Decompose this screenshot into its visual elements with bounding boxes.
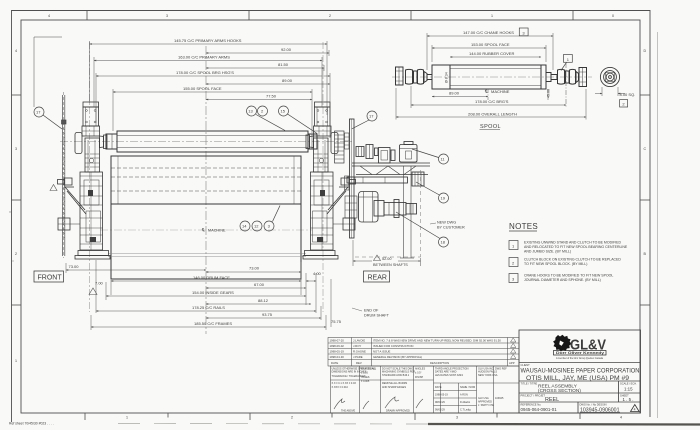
svg-text:8.00 SQ.: 8.00 SQ. xyxy=(620,92,636,97)
svg-text:103945-0906001: 103945-0906001 xyxy=(580,407,620,413)
spool end view xyxy=(600,67,619,86)
note box 2 xyxy=(509,258,518,267)
left primary arm assembly xyxy=(58,102,111,259)
end of drum shaft note xyxy=(352,308,390,318)
svg-text:ANGLES: ANGLES xyxy=(415,368,425,371)
svg-text:AND JUMBO SIZE. (BY MILL): AND JUMBO SIZE. (BY MILL) xyxy=(524,250,571,254)
svg-text:0945-064-0901-01: 0945-064-0901-01 xyxy=(521,407,558,412)
mid shaft xyxy=(347,177,408,183)
drum front view xyxy=(111,156,301,279)
GLV logo xyxy=(553,335,606,360)
svg-text:THE ABOVE: THE ABOVE xyxy=(341,410,356,413)
svg-text:℄: ℄ xyxy=(484,89,488,94)
spool view dims xyxy=(396,33,586,120)
svg-text:1: 1 xyxy=(491,14,493,18)
svg-text:REV: REV xyxy=(356,361,362,365)
left threaded rod xyxy=(34,37,66,258)
svg-text:146.00 DRUM FACE: 146.00 DRUM FACE xyxy=(193,275,230,280)
svg-text:18: 18 xyxy=(441,240,446,245)
svg-text:J.LAVOIE: J.LAVOIE xyxy=(353,339,365,343)
svg-text:67.00: 67.00 xyxy=(254,282,265,287)
FRONT label xyxy=(34,271,64,282)
svg-text:WAUSAU-MOSINEE PAPER CORPORATI: WAUSAU-MOSINEE PAPER CORPORATION xyxy=(521,368,640,375)
rear balloons xyxy=(352,111,449,247)
svg-text:BETWEEN SHAFTS: BETWEEN SHAFTS xyxy=(373,263,408,267)
svg-text:4: 4 xyxy=(620,416,622,420)
ref box 2 xyxy=(620,100,628,107)
svg-text:J.ROY: J.ROY xyxy=(353,344,361,348)
svg-text:52.00: 52.00 xyxy=(382,257,392,261)
right arm centerline xyxy=(322,42,324,312)
dashed customer boundary xyxy=(355,170,421,257)
title block warning triangle xyxy=(631,405,640,412)
spool centerline xyxy=(392,76,592,78)
left arm centerline xyxy=(89,42,91,312)
balloon 11 xyxy=(439,154,449,164)
svg-text:Ø 8.34: Ø 8.34 xyxy=(445,72,449,83)
svg-text:A member of the GLV Group Que: A member of the GLV Group Quebec Canada xyxy=(556,357,604,360)
paper edge shadow right xyxy=(657,32,659,418)
svg-text:103945: 103945 xyxy=(495,397,504,400)
svg-text:Dorr Oliver Kennedy: Dorr Oliver Kennedy xyxy=(556,351,604,355)
svg-text:± 1/16: ± 1/16 xyxy=(361,372,369,375)
svg-text:99/01/29: 99/01/29 xyxy=(435,409,445,412)
svg-text:147.00 C/C CHANE HOOKS: 147.00 C/C CHANE HOOKS xyxy=(463,30,514,35)
svg-text:144.00 RUBBER COVER: 144.00 RUBBER COVER xyxy=(469,51,514,56)
note box 1 xyxy=(509,241,518,283)
svg-text:END OF: END OF xyxy=(364,309,379,313)
svg-text:DWG REF: DWG REF xyxy=(495,368,507,371)
balloon 17 reference line xyxy=(33,37,35,107)
svg-text:AND RELOCATED TO FIT NEW SPOOL: AND RELOCATED TO FIT NEW SPOOL BEARING C… xyxy=(524,245,628,249)
pivot knob xyxy=(64,178,72,185)
svg-text:X.X ± 0.1 X.XX ± 0.03: X.X ± 0.1 X.XX ± 0.03 xyxy=(332,382,357,385)
extension lines down xyxy=(110,280,112,295)
svg-text:NOTES: NOTES xyxy=(509,222,538,231)
svg-text:208.00 OVERALL LENGTH: 208.00 OVERALL LENGTH xyxy=(468,112,517,117)
svg-text:APP: APP xyxy=(509,361,515,365)
right journal xyxy=(546,73,551,82)
svg-text:± 0.005: ± 0.005 xyxy=(361,380,370,383)
balloon 13 xyxy=(34,106,317,231)
svg-text:DWG No. / No DESSIN: DWG No. / No DESSIN xyxy=(580,402,607,406)
svg-text:155.00 SPOOL FACE: 155.00 SPOOL FACE xyxy=(183,86,222,91)
svg-text:HOLES: HOLES xyxy=(361,376,370,379)
svg-text:13: 13 xyxy=(248,109,253,114)
border frame inner xyxy=(21,20,640,413)
top shaft train xyxy=(356,147,364,157)
svg-text:1998-05-19: 1998-05-19 xyxy=(435,394,448,397)
svg-text:75.75: 75.75 xyxy=(331,319,342,324)
svg-text:NAME / NOM: NAME / NOM xyxy=(460,386,475,389)
zone tick marks right xyxy=(640,94,650,96)
zone tick marks bottom xyxy=(84,413,86,420)
svg-text:17: 17 xyxy=(36,110,41,115)
balloon 18 xyxy=(439,237,449,247)
svg-text:D: D xyxy=(644,49,647,53)
svg-text:4: 4 xyxy=(48,14,50,18)
svg-text:DATE: DATE xyxy=(435,386,442,389)
svg-text:2: 2 xyxy=(291,416,293,420)
svg-text:3: 3 xyxy=(166,14,168,18)
svg-text:CLUTCH BLOCK ON EXISTING CLUTC: CLUTCH BLOCK ON EXISTING CLUTCH TO BE RE… xyxy=(524,258,621,262)
svg-text:1: 1 xyxy=(15,359,17,363)
svg-text:19: 19 xyxy=(441,196,446,201)
balloon 14 xyxy=(240,221,250,231)
balloon 12 front xyxy=(252,221,262,231)
svg-text:JOURNAL DIAMETER AND SPHONE. (: JOURNAL DIAMETER AND SPHONE. (BY MILL) xyxy=(524,278,601,282)
svg-text:REFERENCE No.: REFERENCE No. xyxy=(521,402,542,406)
balloon 17 xyxy=(34,107,44,117)
balloon 19 xyxy=(439,193,449,203)
svg-text:(CROSS SECTION): (CROSS SECTION) xyxy=(538,388,581,394)
svg-text:Ref sheet 70/45/30 #023 . .: Ref sheet 70/45/30 #023 . . . . xyxy=(9,422,54,426)
right primary arm assembly (mirror of left) xyxy=(303,102,356,259)
svg-text:CRANE HOOKS TO BE MODIFIED TO: CRANE HOOKS TO BE MODIFIED TO FIT NEW SP… xyxy=(524,274,613,278)
paper edge dark band bottom right xyxy=(428,423,700,426)
svg-text:R.GAGNE: R.GAGNE xyxy=(353,350,366,354)
svg-text:FRACTIONS: FRACTIONS xyxy=(361,368,376,371)
svg-text:88.12: 88.12 xyxy=(258,298,269,303)
balloon 15 xyxy=(279,106,289,116)
lower column xyxy=(80,172,103,250)
svg-text:17: 17 xyxy=(369,114,374,119)
svg-text:REEL: REEL xyxy=(545,397,559,403)
motor xyxy=(400,145,418,163)
svg-text:X.XXX ± 0.010: X.XXX ± 0.010 xyxy=(332,386,349,389)
svg-text:PROJECT / PROJET: PROJECT / PROJET xyxy=(521,393,546,397)
svg-text:1 . 5 .: 1 . 5 . xyxy=(623,397,634,402)
svg-text:4: 4 xyxy=(634,408,636,412)
revision triangles xyxy=(511,338,516,359)
svg-text:MACHINE: MACHINE xyxy=(491,89,510,94)
svg-text:STANDARD ANSI B46.1: STANDARD ANSI B46.1 xyxy=(382,374,410,377)
svg-text:SPOOL: SPOOL xyxy=(480,124,501,130)
svg-text:DESCRIPTION: DESCRIPTION xyxy=(430,361,449,365)
svg-text:EXISTING UNWIND STAND AND CLUT: EXISTING UNWIND STAND AND CLUTCH TO BE M… xyxy=(524,241,622,245)
svg-text:A RON: A RON xyxy=(460,394,468,397)
new dwg by customer note xyxy=(430,221,465,230)
svg-text:CLIENT: CLIENT xyxy=(521,363,531,367)
beaver icon xyxy=(553,335,571,352)
lever bar xyxy=(347,119,430,258)
svg-text:81.50: 81.50 xyxy=(278,62,289,67)
svg-text:1:15: 1:15 xyxy=(624,386,633,391)
svg-text:FINISH: FINISH xyxy=(415,376,423,379)
spool body front view xyxy=(106,131,317,152)
svg-text:± 0.5°: ± 0.5° xyxy=(415,372,422,375)
svg-text:1998-07-20: 1998-07-20 xyxy=(330,339,345,343)
spool centerline horizontal xyxy=(60,141,352,143)
svg-text:4.00: 4.00 xyxy=(313,271,322,276)
svg-text:LES DATES SONT A/M/J: LES DATES SONT A/M/J xyxy=(435,374,464,377)
clutch assembly xyxy=(374,201,384,217)
svg-text:2: 2 xyxy=(15,252,17,256)
svg-text:98/01/29: 98/01/29 xyxy=(435,401,445,404)
left journal xyxy=(396,67,404,85)
svg-text:1998-05-19: 1998-05-19 xyxy=(330,350,345,354)
svg-text:OTIS MILL, JAY, ME (USA) PM #9: OTIS MILL, JAY, ME (USA) PM #9 xyxy=(526,375,629,382)
svg-text:15: 15 xyxy=(281,109,286,114)
svg-text:J.PARE: J.PARE xyxy=(353,355,363,359)
floor rails lines xyxy=(108,253,306,255)
svg-text:ISSUED FOR CONSTRUCTION: ISSUED FOR CONSTRUCTION xyxy=(373,344,413,348)
svg-text:MACHINE: MACHINE xyxy=(208,229,226,233)
svg-text:185.50 C/C FRAMES: 185.50 C/C FRAMES xyxy=(194,321,232,326)
svg-text:J. SMITH / PE: J. SMITH / PE xyxy=(478,404,494,407)
svg-text:89.00: 89.00 xyxy=(449,91,460,96)
svg-text:DRAWN APPROVED: DRAWN APPROVED xyxy=(386,410,410,413)
balloon 3 xyxy=(264,221,274,231)
svg-text:1998-06-02: 1998-06-02 xyxy=(330,344,345,348)
svg-text:FRONT: FRONT xyxy=(38,275,63,282)
right disc stack xyxy=(335,131,345,163)
svg-text:154.00 INSIDE GEARS: 154.00 INSIDE GEARS xyxy=(192,290,234,295)
svg-text:TO FIT NEW SPOOL BLOCK. (BY MI: TO FIT NEW SPOOL BLOCK. (BY MILL) xyxy=(524,262,587,266)
balloon 17 rear xyxy=(367,111,377,121)
svg-text:1: 1 xyxy=(126,416,128,420)
svg-text:93.75: 93.75 xyxy=(262,312,273,317)
svg-text:BY CUSTOMER: BY CUSTOMER xyxy=(437,226,465,230)
svg-text:77.50: 77.50 xyxy=(266,94,277,99)
svg-text:4: 4 xyxy=(15,49,17,53)
frame rails xyxy=(352,162,430,164)
svg-text:REMOVE ALL BURRS: REMOVE ALL BURRS xyxy=(382,382,408,385)
ref box 3 xyxy=(519,28,627,107)
spool right end cap xyxy=(308,134,317,149)
spool block cylinder xyxy=(359,192,379,223)
svg-text:178.00 C/C SPOOL BRG HSG'S: 178.00 C/C SPOOL BRG HSG'S xyxy=(176,70,234,75)
balloon 2 xyxy=(258,106,268,116)
specks xyxy=(9,211,10,212)
machine CL label front view xyxy=(201,228,226,233)
svg-text:178.00 C/C BRG'S: 178.00 C/C BRG'S xyxy=(475,99,509,104)
svg-text:ITEM NO. 7 & 8 WAS NEW DRIVE A: ITEM NO. 7 & 8 WAS NEW DRIVE AND NEW TUR… xyxy=(373,339,501,343)
svg-text:3: 3 xyxy=(456,416,458,420)
svg-text:12: 12 xyxy=(254,224,259,229)
zone tick marks left xyxy=(12,94,22,96)
counterweight xyxy=(75,133,82,154)
svg-text:SCALE / ECH.: SCALE / ECH. xyxy=(620,381,637,385)
gusset xyxy=(65,187,85,210)
REAR label xyxy=(364,271,390,282)
svg-text:1998-04-30: 1998-04-30 xyxy=(330,355,345,359)
signature marks xyxy=(334,397,423,409)
drum centerline horizontal xyxy=(100,229,312,231)
svg-text:145.75 C/C PRIMARY ARMS HOOKS: 145.75 C/C PRIMARY ARMS HOOKS xyxy=(174,38,242,43)
warning triangle near 7.00 xyxy=(89,288,97,295)
svg-text:0: 0 xyxy=(612,14,614,18)
svg-text:D Aliadro: D Aliadro xyxy=(460,401,471,404)
svg-text:73.00: 73.00 xyxy=(69,264,80,269)
svg-text:3: 3 xyxy=(15,147,17,151)
approval / standards block xyxy=(331,366,520,413)
svg-text:C.T.Ledig: C.T.Ledig xyxy=(460,409,471,412)
end view dim 8.00 SQ xyxy=(595,87,625,96)
svg-text:NOT A ISSUE: NOT A ISSUE xyxy=(373,350,390,354)
svg-text:14: 14 xyxy=(242,224,247,229)
right side vertical dim 75.75 xyxy=(330,279,332,327)
svg-text:DRUM SHAFT: DRUM SHAFT xyxy=(364,314,390,318)
svg-text:DATE: DATE xyxy=(331,361,338,365)
journal hub xyxy=(100,136,104,148)
svg-text:C: C xyxy=(644,147,647,151)
svg-text:2: 2 xyxy=(329,14,331,18)
rear fill details near arm xyxy=(345,133,358,218)
52.00 between shafts dim xyxy=(353,240,421,266)
svg-text:AND SHARP EDGES: AND SHARP EDGES xyxy=(382,386,406,389)
svg-text:92.00: 92.00 xyxy=(281,47,292,52)
svg-text:153.00 SPOOL FACE: 153.00 SPOOL FACE xyxy=(471,42,510,47)
svg-text:TITLE / TITRE: TITLE / TITRE xyxy=(521,381,538,385)
svg-text:7.00: 7.00 xyxy=(95,281,104,286)
svg-text:NEW YORK USA: NEW YORK USA xyxy=(478,374,498,377)
arm mid section xyxy=(85,138,100,172)
svg-text:NEW DWG: NEW DWG xyxy=(437,221,456,225)
svg-text:REAR: REAR xyxy=(368,275,387,282)
svg-text:163.00 C/C PRIMARY ARMS: 163.00 C/C PRIMARY ARMS xyxy=(178,55,230,60)
extension lines xyxy=(89,41,91,103)
svg-text:45.00: 45.00 xyxy=(547,89,551,98)
svg-text:89.00: 89.00 xyxy=(282,78,293,83)
spool left end cap xyxy=(106,134,117,149)
warning triangle left side xyxy=(50,185,57,191)
note box 3 xyxy=(509,274,518,283)
ref box 1 xyxy=(564,55,573,63)
svg-text:178.25 C/C RAILS: 178.25 C/C RAILS xyxy=(192,305,225,310)
balloon leaders xyxy=(256,115,285,131)
svg-text:73.00: 73.00 xyxy=(249,266,260,271)
svg-text:GENERAL REVISION (BY APPROVAL): GENERAL REVISION (BY APPROVAL) xyxy=(373,355,422,359)
pedestal xyxy=(78,251,109,256)
machine centerline vertical xyxy=(205,46,207,334)
spool body xyxy=(432,65,546,89)
